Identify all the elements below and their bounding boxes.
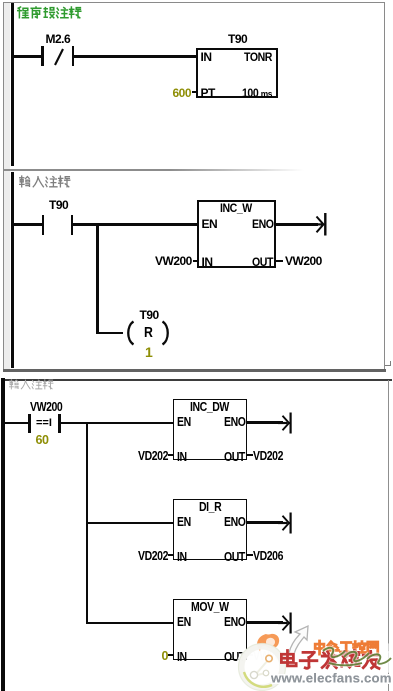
value 1 [145, 345, 153, 359]
wire branch to MOV_W [86, 622, 173, 624]
operand VD206 (DI_R OUT) [253, 550, 283, 563]
reset coil (R) [122, 320, 174, 346]
net3 left power rail [1, 378, 4, 691]
INC_W block [197, 200, 276, 268]
contact T90 label [49, 199, 68, 211]
operand VW200 (OUT) [285, 255, 322, 267]
wire rail to contact T90 [14, 223, 42, 225]
watermark green scribble [323, 648, 391, 666]
wire contact to INC_DW [61, 422, 173, 424]
left power rail net1 [11, 3, 14, 166]
operand VW200 (MOV_W OUT, under watermark) [253, 650, 285, 663]
net3 comment 输入注释 [9, 379, 54, 390]
operand 0 (MOV_W IN) [162, 650, 168, 663]
operand VW200 (IN) [155, 255, 192, 267]
net3 top border [2, 379, 392, 381]
compare contact ==I [28, 414, 31, 433]
contact T90 (normally open) [42, 215, 45, 235]
contact M2.6 label [46, 33, 71, 45]
wire contact to INC_W [73, 223, 197, 225]
network 1 comment 程序段注释 [17, 6, 82, 20]
operand VD202 (OUT) [253, 450, 283, 463]
wire ENO out [276, 223, 318, 225]
open branch arrow row1 [278, 411, 294, 435]
network 2 comment 输入注释 [19, 175, 71, 189]
contact label VW200 [30, 401, 62, 414]
editor frame border [3, 2, 385, 371]
timer operand label T90 [228, 33, 247, 45]
open branch arrow row3 [278, 611, 294, 635]
open branch arrow row2 [278, 511, 294, 535]
svg-text:www.elecfans.com: www.elecfans.com [270, 671, 392, 686]
corner artifact mark [385, 365, 391, 366]
wire contact to timer [74, 55, 196, 57]
coil branch wire [97, 332, 123, 334]
left margin strip [4, 3, 10, 369]
branch junction vertical [96, 225, 98, 334]
left power rail net2 [11, 172, 14, 368]
wire rail to compare contact [5, 422, 29, 424]
watermark text 中华工控网 [315, 641, 378, 654]
wire ENO out MOV_W [247, 621, 283, 623]
timer block T90 TONR [196, 48, 278, 98]
watermark ring logo [242, 647, 283, 688]
operand VD202 (IN) [138, 450, 168, 463]
open branch arrow net2 [313, 211, 329, 237]
frame bottom border (dark) [3, 369, 386, 371]
tick 600 to PT [192, 91, 197, 93]
contact M2.6 (normally closed) [41, 46, 44, 66]
MOV_W block [173, 599, 248, 661]
value 600 [173, 87, 192, 99]
INC_DW block [173, 399, 248, 461]
wire rail to contact M2.6 [14, 55, 42, 57]
operand VD202 (DI_R IN) [138, 550, 168, 563]
wire branch to DI_R [86, 522, 173, 524]
net3 right border [388, 380, 390, 691]
value 60 [36, 434, 49, 447]
watermark white halo [237, 635, 393, 689]
watermark text 电子发烧友 [281, 651, 379, 669]
network separator (fading) [4, 169, 304, 171]
branch junction vertical net3 [86, 423, 88, 623]
wire ENO out DI_R [247, 521, 283, 523]
watermark white arrow [289, 626, 308, 654]
reset coil label T90 [140, 309, 159, 321]
wire ENO out INC_DW [247, 421, 283, 423]
DI_R block [173, 499, 248, 561]
watermark orange flame logo [257, 634, 279, 651]
